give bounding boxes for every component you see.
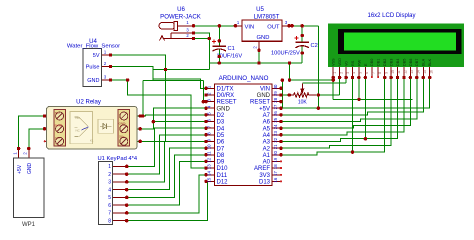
wire: gnd rail under regulator: [209, 62, 302, 64]
svg-text:Pulse: Pulse: [86, 64, 100, 70]
svg-text:D8: D8: [217, 153, 225, 159]
svg-text:VSS: VSS: [332, 58, 336, 66]
svg-text:3: 3: [108, 180, 111, 186]
svg-text:BLA: BLA: [422, 58, 426, 66]
svg-text:1: 1: [108, 164, 111, 170]
power jack pin stubs: [177, 25, 194, 27]
junction and pin dots: [192, 24, 196, 28]
svg-text:WP1: WP1: [22, 222, 36, 228]
svg-text:21: 21: [273, 144, 278, 149]
svg-text:D13: D13: [259, 180, 271, 186]
wire: LCD DB7 to arduino A6: [281, 78, 417, 122]
svg-text:3V3: 3V3: [259, 173, 270, 179]
svg-text:A2: A2: [263, 146, 271, 152]
svg-text:GND: GND: [87, 78, 99, 84]
wire: keypad pin 3 to arduino: [127, 142, 206, 182]
svg-text:DB5: DB5: [402, 59, 406, 66]
svg-text:LM7805T: LM7805T: [254, 14, 280, 21]
svg-text:U6: U6: [177, 6, 185, 13]
svg-text:K1: K1: [90, 139, 94, 143]
svg-text:NO: NO: [55, 111, 60, 115]
svg-text:14: 14: [417, 70, 421, 74]
svg-text:C2: C2: [311, 43, 318, 49]
LCD pin stubs: [333, 67, 430, 78]
svg-text:D0/RX: D0/RX: [217, 93, 235, 99]
relay screw terminals: [56, 112, 64, 120]
wire: gnd drop from rail: [289, 63, 291, 80]
svg-text:DB1: DB1: [377, 59, 381, 66]
svg-text:DB2: DB2: [383, 59, 387, 66]
svg-text:VDD: VDD: [338, 58, 342, 66]
svg-text:+5V: +5V: [259, 106, 270, 112]
svg-text:D7: D7: [217, 146, 225, 152]
svg-text:6: 6: [108, 203, 111, 209]
svg-text:RESET: RESET: [217, 100, 237, 106]
arduino left pin stubs: [206, 88, 214, 181]
svg-text:8: 8: [378, 72, 382, 74]
svg-text:11: 11: [397, 70, 401, 74]
wire: pot wiper to LCD V0: [302, 82, 346, 84]
WP1 pin stubs: [19, 149, 29, 159]
svg-text:RW: RW: [357, 59, 361, 66]
wire: LCD DB3 to arduino A2: [281, 78, 391, 149]
wire: keypad pin 8 to arduino: [127, 181, 208, 220]
wire: LCD BLK to arduino +5V row: [281, 78, 430, 109]
svg-text:15: 15: [423, 70, 427, 74]
svg-text:16: 16: [429, 70, 433, 74]
svg-text:24: 24: [273, 124, 278, 129]
svg-text:D9: D9: [217, 160, 225, 166]
wire: relay right row3 to 5V vertical: [137, 140, 166, 142]
LCD display: [328, 24, 464, 67]
svg-text:28: 28: [273, 97, 278, 102]
svg-text:25: 25: [273, 117, 278, 122]
wire: LCD RS down to tee: [351, 78, 353, 153]
wire: jack pin2 to gnd vertical: [194, 38, 210, 40]
svg-text:20: 20: [273, 151, 278, 156]
svg-text:ARDUINO_NANO: ARDUINO_NANO: [219, 75, 269, 82]
svg-text:DB6: DB6: [409, 59, 413, 66]
wire: WP1 pin2 up to relay left row2: [29, 129, 47, 149]
capacitor C2: [296, 42, 310, 48]
wire: keypad pin 5 to arduino: [127, 155, 206, 198]
svg-text:D12: D12: [217, 180, 229, 186]
wire: keypad pin 4 to arduino: [127, 148, 206, 190]
wire: LCD DB4 to arduino A3: [281, 78, 398, 142]
wire: LCD DB5 to arduino A4: [281, 78, 404, 135]
sensor pin stubs: [102, 54, 111, 56]
svg-text:D4: D4: [217, 126, 225, 132]
wire: pot right to LCD VDD: [316, 94, 340, 96]
wire: LCD RW drop: [358, 78, 360, 100]
wire: LCD E down to tee: [364, 78, 366, 139]
wire: LCD DB6 to arduino A5: [281, 78, 410, 129]
wire: gnd vertical from jack down: [208, 39, 210, 70]
svg-text:VIN: VIN: [245, 25, 255, 31]
wire: gnd horizontal under LCD: [333, 98, 413, 100]
wire: C2 top lead: [301, 26, 303, 42]
svg-text:PUMP: PUMP: [55, 124, 63, 128]
wire: keypad pin 1 to arduino: [127, 128, 206, 166]
wire: branch down to relay row1 side: [142, 81, 144, 116]
svg-text:27: 27: [273, 104, 278, 109]
svg-text:5: 5: [108, 195, 111, 201]
svg-text:7: 7: [108, 211, 111, 217]
wire: LCD V0 pin drop: [345, 78, 347, 83]
svg-text:A4: A4: [263, 133, 271, 139]
relay terminal stubs: [45, 116, 137, 141]
wire: keypad pin 7 to arduino: [127, 175, 206, 213]
wire: sensor GND over relay to arduino D10: [110, 80, 206, 168]
svg-text:VIN: VIN: [260, 86, 270, 92]
wire: 7805 gnd pin to rail: [258, 50, 260, 63]
svg-text:GND: GND: [27, 163, 33, 175]
svg-text:V0: V0: [344, 61, 348, 66]
svg-text:BLK: BLK: [428, 58, 432, 66]
svg-text:3: 3: [346, 72, 350, 74]
svg-text:U5: U5: [256, 6, 264, 13]
svg-text:A6: A6: [263, 120, 271, 126]
svg-text:U2 Relay: U2 Relay: [76, 100, 101, 106]
wire: pot left to arduino GND pin: [281, 94, 289, 96]
wire: LCD BLA to arduino A7: [281, 78, 423, 115]
wire: sensor 5V to relay 5V+ vertical: [110, 55, 166, 141]
svg-text:7: 7: [371, 72, 375, 74]
relay opto box: [98, 119, 114, 133]
svg-text:29: 29: [273, 91, 278, 96]
svg-text:12: 12: [404, 70, 408, 74]
wire: jack pin3 to gnd corner: [194, 33, 210, 39]
svg-text:GND: GND: [217, 106, 231, 112]
svg-text:D2: D2: [217, 113, 225, 119]
svg-text:16: 16: [273, 177, 278, 182]
relay right terminal block: [118, 109, 130, 146]
arduino nano U3: [214, 84, 272, 186]
svg-text:Water_Flow_Sensor: Water_Flow_Sensor: [67, 44, 120, 50]
water flow sensor U4: [83, 49, 102, 87]
svg-text:23: 23: [273, 131, 278, 136]
wire: relay right row2 to arduino GND: [137, 108, 206, 129]
wire: keypad pin 2 to arduino: [127, 135, 206, 174]
wire: branch to arduino RESET: [203, 81, 206, 102]
svg-text:4: 4: [108, 187, 111, 193]
regulator U5 LM7805T: [242, 20, 282, 41]
svg-text:D3: D3: [217, 120, 225, 126]
svg-text:10: 10: [391, 70, 395, 74]
svg-text:A5: A5: [263, 126, 271, 132]
wire: sensor Pulse to arduino D1/TX: [110, 67, 206, 89]
wire: C1 bottom lead: [218, 50, 220, 64]
svg-text:100UF/25V: 100UF/25V: [271, 50, 300, 56]
svg-text:13: 13: [410, 70, 414, 74]
wire: gnd to LCD VSS: [290, 79, 334, 81]
svg-text:D1/TX: D1/TX: [217, 86, 234, 92]
svg-text:17: 17: [273, 170, 278, 175]
wire: 7805 OUT +5V: [289, 25, 318, 27]
7805 pin stubs: [235, 25, 242, 27]
wire: 5V branch horizontal: [153, 69, 210, 71]
svg-text:GND-: GND-: [119, 122, 127, 126]
wire: +5V vertical down right of regulator: [317, 26, 319, 108]
svg-text:19: 19: [273, 157, 278, 162]
svg-text:DB3: DB3: [389, 59, 393, 66]
svg-text:4: 4: [352, 72, 356, 74]
svg-text:POWER-JACK: POWER-JACK: [160, 14, 201, 21]
svg-text:D10: D10: [217, 166, 229, 172]
unconnected pin tips: [280, 160, 282, 162]
wire: LCD VDD pin drop: [339, 78, 341, 96]
arduino right pin stubs: [272, 88, 281, 181]
svg-text:8: 8: [108, 218, 111, 224]
svg-text:NO: NO: [76, 116, 81, 120]
relay inner relay box: [70, 111, 92, 143]
relay left terminal block: [54, 109, 65, 146]
svg-text:U1 KeyPad 4*4: U1 KeyPad 4*4: [98, 156, 138, 162]
capacitor C1: [213, 46, 227, 51]
svg-text:6: 6: [365, 72, 369, 74]
wire: WP1 pin1 up to relay left row1: [19, 116, 47, 149]
svg-text:30: 30: [273, 84, 278, 89]
svg-text:18: 18: [273, 164, 278, 169]
svg-text:D11: D11: [217, 173, 228, 179]
svg-text:AREF: AREF: [254, 166, 270, 172]
svg-text:C1: C1: [228, 46, 235, 52]
wire: LCD DB2 to arduino A1: [281, 78, 385, 155]
wire: C2 bottom lead: [301, 47, 303, 64]
svg-text:9: 9: [384, 72, 388, 74]
wire: relay branch to arduino D3: [153, 121, 206, 123]
svg-text:DB7: DB7: [415, 59, 419, 66]
potentiometer 10K: [289, 84, 316, 98]
wire: VIN stub from gnd wire: [281, 80, 283, 108]
wire: keypad pin 6 to arduino: [127, 161, 206, 205]
svg-text:D6: D6: [217, 140, 225, 146]
svg-text:A0: A0: [263, 160, 271, 166]
svg-text:2: 2: [108, 172, 111, 178]
svg-text:DB0: DB0: [370, 59, 374, 66]
svg-text:A1: A1: [263, 153, 271, 159]
svg-text:16x2 LCD Display: 16x2 LCD Display: [367, 13, 415, 19]
svg-text:10K: 10K: [298, 99, 308, 105]
wire: C1 top lead: [218, 26, 220, 46]
pump WP1: [13, 158, 44, 218]
power jack U6: [159, 21, 194, 40]
relay module U2: [47, 107, 138, 150]
svg-text:5V: 5V: [93, 53, 100, 59]
svg-text:+5V: +5V: [17, 164, 23, 174]
svg-text:5V+: 5V+: [119, 134, 125, 138]
svg-text:5: 5: [359, 72, 363, 74]
wire: second branch horizontal: [143, 80, 204, 82]
svg-text:DB4: DB4: [396, 59, 400, 66]
wire: relay right row1 to arduino D2: [137, 115, 206, 116]
wire: jack pin1 to 7805 VIN (+12V): [194, 25, 236, 27]
svg-text:26: 26: [273, 111, 278, 116]
wire: branch vertical link: [152, 70, 154, 81]
svg-text:RS: RS: [351, 60, 355, 66]
svg-text:D5: D5: [217, 133, 225, 139]
svg-text:OUT: OUT: [267, 25, 280, 31]
svg-text:A7: A7: [263, 113, 271, 119]
svg-text:22: 22: [273, 137, 278, 142]
keypad pin stubs: [113, 166, 127, 220]
svg-text:1: 1: [333, 72, 337, 74]
svg-text:RESET: RESET: [250, 100, 270, 106]
svg-text:A3: A3: [263, 140, 271, 146]
keypad U1: [98, 162, 112, 225]
svg-text:GND: GND: [257, 35, 270, 41]
svg-text:GND: GND: [257, 93, 271, 99]
svg-text:2: 2: [339, 72, 343, 74]
wire: VSS pin drop and continuation: [332, 78, 334, 100]
